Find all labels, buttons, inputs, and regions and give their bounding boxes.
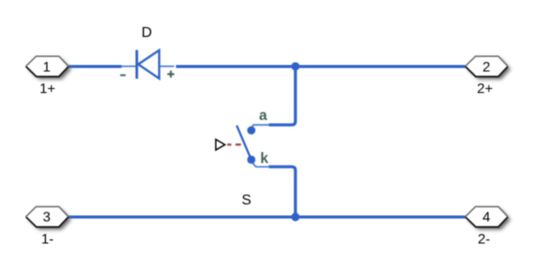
svg-text:4: 4	[483, 209, 491, 225]
svg-text:S: S	[242, 192, 252, 208]
svg-text:1-: 1-	[41, 230, 54, 246]
svg-text:k: k	[260, 151, 269, 167]
svg-text:a: a	[259, 108, 268, 124]
svg-text:1: 1	[43, 58, 51, 74]
svg-text:1+: 1+	[40, 80, 56, 96]
svg-text:2: 2	[483, 58, 491, 74]
svg-text:2+: 2+	[477, 80, 493, 96]
svg-text:3: 3	[43, 209, 51, 225]
svg-text:D: D	[142, 25, 152, 41]
svg-text:2-: 2-	[478, 230, 491, 246]
